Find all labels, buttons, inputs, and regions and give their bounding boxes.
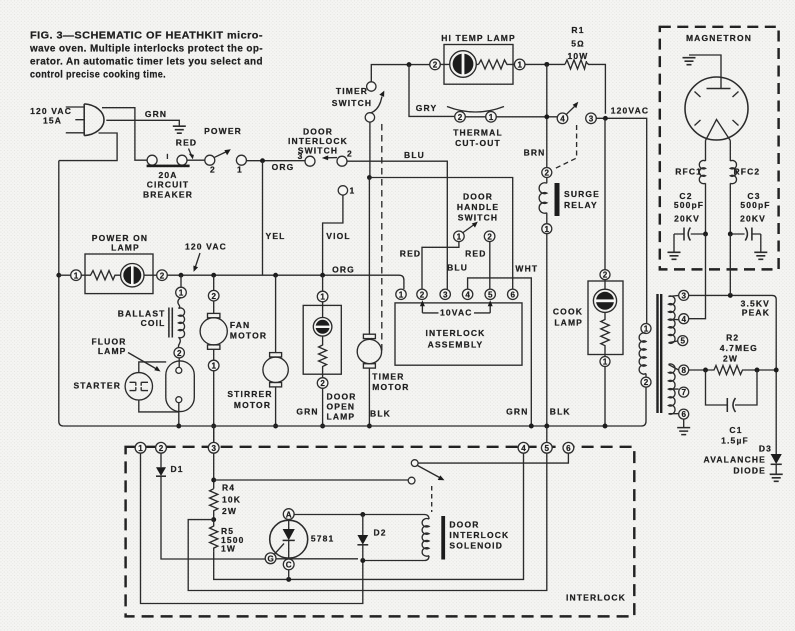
- svg-text:1: 1: [74, 271, 79, 280]
- interlock terminal 4: [518, 442, 529, 453]
- wire to interlock relay contact: [214, 479, 409, 481]
- svg-text:10VAC: 10VAC: [440, 307, 473, 317]
- choke RFC1: [699, 160, 705, 234]
- wire GRN to ground: [106, 120, 179, 126]
- svg-text:FIG. 3—SCHEMATIC OF HEATHKIT m: FIG. 3—SCHEMATIC OF HEATHKIT micro-: [30, 31, 263, 42]
- svg-text:120 VAC: 120 VAC: [30, 106, 72, 116]
- svg-text:2: 2: [644, 378, 649, 387]
- svg-text:2: 2: [458, 113, 463, 122]
- wire anode line to solenoid top: [294, 514, 358, 516]
- svg-text:SURGE: SURGE: [564, 189, 600, 199]
- svg-text:G: G: [267, 555, 273, 564]
- svg-text:LAMP: LAMP: [98, 346, 127, 356]
- svg-text:C: C: [286, 561, 292, 570]
- wire bus to interlock terminal 3: [213, 426, 215, 443]
- svg-text:20A: 20A: [158, 170, 177, 180]
- interlock terminal 6: [563, 442, 574, 453]
- svg-text:C1: C1: [729, 425, 742, 435]
- svg-text:erator. An automatic timer let: erator. An automatic timer lets you sele…: [30, 57, 263, 68]
- svg-text:20KV: 20KV: [740, 214, 766, 224]
- svg-text:2: 2: [347, 149, 353, 159]
- primary terminal 2: [641, 377, 651, 387]
- node C3 junction: [728, 232, 733, 237]
- secondary HV winding: [669, 364, 676, 414]
- svg-text:1: 1: [179, 289, 184, 298]
- node magnetron right leg junction: [728, 293, 733, 298]
- ballast coil L1: [118, 275, 187, 358]
- door open lamp DS3: [303, 275, 356, 426]
- svg-text:POWER: POWER: [204, 126, 242, 136]
- svg-text:LAMP: LAMP: [327, 412, 356, 422]
- node GRN bus junction: [529, 424, 534, 429]
- svg-text:5: 5: [680, 337, 685, 346]
- AC plug P1: [30, 104, 104, 136]
- svg-text:STIRRER: STIRRER: [227, 389, 272, 399]
- wire VIOL down to bus: [323, 195, 343, 275]
- svg-text:VIOL: VIOL: [326, 231, 350, 241]
- svg-text:GRN: GRN: [506, 407, 528, 417]
- svg-text:HI TEMP LAMP: HI TEMP LAMP: [441, 33, 516, 43]
- magnetron box (dashed): [660, 27, 779, 270]
- svg-text:ASSEMBLY: ASSEMBLY: [428, 340, 484, 350]
- svg-text:DOOR: DOOR: [463, 192, 493, 202]
- svg-text:ORG: ORG: [272, 162, 295, 172]
- svg-text:5: 5: [488, 291, 493, 300]
- svg-text:2W: 2W: [222, 506, 237, 516]
- svg-text:LAMP: LAMP: [554, 318, 583, 328]
- wire RED left to interlock terminal 2: [422, 241, 459, 289]
- fan motor B1: [200, 273, 267, 443]
- svg-text:500pF: 500pF: [674, 200, 704, 210]
- interlock relay contacts: [408, 460, 444, 484]
- svg-text:MOTOR: MOTOR: [372, 382, 409, 392]
- wire gate line to solenoid bottom: [276, 556, 429, 561]
- wire cutout to surge switch: [496, 116, 558, 118]
- wire terminal 4 to magnetron left leg: [689, 269, 706, 318]
- svg-text:BLU: BLU: [447, 263, 468, 273]
- node R4/R5 junction: [211, 517, 216, 522]
- svg-text:RED: RED: [176, 138, 197, 148]
- ground (power cord): [173, 126, 186, 133]
- svg-text:20KV: 20KV: [674, 214, 700, 224]
- svg-text:1.5µF: 1.5µF: [721, 436, 749, 446]
- ground D3: [770, 474, 783, 481]
- svg-text:RFC2: RFC2: [734, 167, 761, 177]
- ground magnetron: [683, 58, 696, 65]
- wire top row (timer switch to hi-temp lamp): [371, 65, 429, 83]
- primary terminal 1: [641, 324, 651, 334]
- svg-text:DOOR: DOOR: [303, 127, 333, 137]
- label RED with arrow: [176, 138, 197, 160]
- svg-text:120VAC: 120VAC: [611, 106, 649, 116]
- ground transformer terminal 6: [683, 419, 685, 427]
- node timer junction: [367, 175, 372, 180]
- svg-text:2: 2: [433, 61, 438, 70]
- svg-text:DIODE: DIODE: [733, 466, 766, 476]
- svg-text:7: 7: [681, 388, 686, 397]
- node ballast tap: [179, 273, 184, 278]
- svg-text:BLK: BLK: [550, 407, 571, 417]
- svg-text:SWITCH: SWITCH: [332, 98, 372, 108]
- svg-text:YEL: YEL: [266, 231, 286, 241]
- node timer motor bus junction: [367, 424, 372, 429]
- bottom bus wire: [64, 387, 646, 426]
- svg-text:6: 6: [681, 410, 686, 419]
- svg-text:RFC1: RFC1: [675, 167, 702, 177]
- mechanical link solenoid (dashed): [431, 486, 433, 512]
- node top GRY tap: [407, 62, 412, 67]
- svg-text:CIRCUIT: CIRCUIT: [147, 180, 190, 190]
- svg-text:COOK: COOK: [553, 307, 583, 317]
- svg-text:BLK: BLK: [370, 409, 391, 419]
- power switch S1: [204, 126, 246, 175]
- choke RFC2: [730, 160, 736, 234]
- wire junction bypass to terminal 5: [188, 453, 547, 590]
- svg-text:3: 3: [681, 292, 686, 301]
- svg-text:2: 2: [420, 291, 425, 300]
- door interlock solenoid L2: [422, 516, 509, 560]
- resistor R1 5ohm 10W: [565, 25, 588, 69]
- svg-text:INTERLOCK: INTERLOCK: [566, 593, 626, 603]
- circuit breaker CB1 20A: [143, 154, 193, 200]
- interlock terminal 2: [156, 442, 167, 453]
- svg-text:POWER ON: POWER ON: [92, 233, 148, 243]
- diode D2: [357, 515, 386, 561]
- hi temp lamp DS1: [430, 33, 525, 84]
- svg-text:AVALANCHE: AVALANCHE: [704, 455, 766, 465]
- door interlock switch S2: [288, 127, 353, 167]
- node fluor lamp bus junction: [176, 424, 181, 429]
- magnetron V1: [685, 55, 748, 141]
- capacitor C2 500pF 20KV: [674, 191, 706, 252]
- svg-text:THERMAL: THERMAL: [453, 128, 503, 138]
- wire 120VAC bus: [167, 275, 404, 289]
- svg-text:A: A: [286, 510, 292, 519]
- svg-text:1: 1: [489, 113, 494, 122]
- svg-text:SWITCH: SWITCH: [458, 212, 498, 222]
- svg-text:2: 2: [603, 271, 608, 280]
- terminal 1 (viol): [338, 186, 347, 195]
- node ORG junction: [260, 158, 265, 163]
- svg-text:1: 1: [138, 444, 143, 453]
- svg-text:1: 1: [237, 165, 243, 175]
- svg-text:500pF: 500pF: [740, 200, 770, 210]
- capacitor C3 500pF 20KV: [730, 191, 770, 252]
- svg-text:4: 4: [521, 444, 526, 453]
- svg-text:2: 2: [210, 165, 216, 175]
- ground C3: [754, 252, 767, 259]
- timer switch S3: [332, 82, 385, 122]
- svg-text:MAGNETRON: MAGNETRON: [686, 33, 752, 43]
- node 120VAC: [603, 116, 608, 121]
- svg-text:4.7MEG: 4.7MEG: [720, 343, 758, 353]
- surge relay switch contacts 4-3: [557, 102, 596, 124]
- starter: [73, 362, 178, 412]
- svg-text:wave oven. Multiple interlocks: wave oven. Multiple interlocks protect t…: [29, 44, 263, 55]
- svg-text:5781: 5781: [311, 534, 335, 544]
- thermal cutout: [447, 107, 504, 149]
- svg-text:1: 1: [603, 358, 608, 367]
- svg-text:1: 1: [399, 291, 404, 300]
- interlock terminal 1: [135, 442, 146, 453]
- svg-text:D2: D2: [374, 528, 387, 538]
- svg-text:TIMER: TIMER: [336, 86, 368, 96]
- mechanical link surge relay (dashed): [554, 125, 577, 169]
- svg-text:SOLENOID: SOLENOID: [449, 540, 503, 550]
- svg-text:4: 4: [465, 291, 470, 300]
- svg-text:1: 1: [320, 293, 325, 302]
- svg-text:LAMP: LAMP: [111, 243, 140, 253]
- svg-text:D1: D1: [171, 464, 184, 474]
- wire breaker to power switch: [187, 159, 206, 161]
- secondary filament winding: [669, 296, 676, 343]
- svg-text:RED: RED: [400, 249, 421, 259]
- svg-text:STARTER: STARTER: [73, 381, 121, 391]
- svg-text:BREAKER: BREAKER: [143, 190, 193, 200]
- caption text block: [29, 31, 263, 81]
- diode D1: [156, 453, 184, 476]
- wire bus to interlock terminal 5: [546, 426, 548, 443]
- wire BLU to interlock assembly terminal 3: [347, 161, 448, 289]
- node C2 junction: [703, 232, 708, 237]
- cook lamp DS4: [553, 118, 623, 426]
- node cathode junction: [286, 577, 291, 582]
- svg-text:2: 2: [160, 271, 165, 280]
- wire WHT interlock terminal 4 to bus: [468, 278, 532, 426]
- wire terminal 6 to contact: [418, 453, 568, 463]
- node right rail R2 junction: [774, 368, 779, 373]
- wire timer switch lower to junction: [369, 122, 371, 178]
- node door open lamp bus junction: [320, 424, 325, 429]
- magnetron filament legs: [706, 141, 731, 162]
- svg-text:D3: D3: [759, 444, 772, 454]
- wire RED right to interlock terminal 5: [489, 241, 491, 289]
- mechanical link timer switch (dashed): [381, 124, 383, 355]
- wire terminal 2 to gate line: [161, 476, 265, 559]
- svg-text:PEAK: PEAK: [742, 308, 770, 318]
- resistor R5 1500 1W: [210, 520, 245, 554]
- svg-text:R1: R1: [571, 25, 584, 35]
- svg-text:control precise cooking time.: control precise cooking time.: [30, 70, 166, 81]
- svg-text:2: 2: [159, 444, 164, 453]
- node cook lamp bus junction: [603, 424, 608, 429]
- svg-text:1: 1: [545, 225, 550, 234]
- wire R5 bottom to terminal 4: [214, 453, 524, 579]
- svg-text:3: 3: [211, 444, 216, 453]
- svg-text:MOTOR: MOTOR: [230, 331, 267, 341]
- interlock terminal 3: [208, 442, 219, 453]
- svg-text:1: 1: [517, 61, 522, 70]
- svg-text:GRY: GRY: [416, 103, 438, 113]
- svg-text:1: 1: [350, 186, 356, 196]
- svg-text:R4: R4: [222, 483, 235, 493]
- wire power switch to door interlock switch: [246, 160, 305, 162]
- node R2 right junction: [755, 368, 760, 373]
- svg-text:DOOR: DOOR: [327, 392, 357, 402]
- svg-text:10W: 10W: [568, 51, 589, 61]
- node stirrer bus junction: [273, 424, 278, 429]
- svg-text:120 VAC: 120 VAC: [185, 242, 227, 252]
- node D2 cathode junction: [360, 558, 365, 563]
- stirrer motor B2: [227, 273, 288, 426]
- svg-text:1: 1: [211, 362, 216, 371]
- wire terminal 3 down: [213, 453, 215, 489]
- svg-text:3: 3: [298, 151, 304, 161]
- svg-text:3: 3: [589, 114, 594, 123]
- interlock box (dashed): [126, 447, 635, 617]
- svg-text:2: 2: [211, 292, 216, 301]
- svg-text:6: 6: [510, 291, 515, 300]
- svg-text:6: 6: [566, 444, 571, 453]
- node door open lamp tap: [320, 273, 325, 278]
- wire YEL down to 120VAC bus: [262, 161, 264, 276]
- surge relay K1: [539, 168, 600, 234]
- svg-text:5Ω: 5Ω: [571, 39, 585, 49]
- HV transformer T1: [639, 290, 689, 419]
- power on lamp DS2: [71, 233, 168, 294]
- svg-text:3: 3: [443, 291, 448, 300]
- svg-text:2: 2: [545, 169, 550, 178]
- svg-text:SWITCH: SWITCH: [298, 146, 338, 156]
- svg-text:4: 4: [681, 315, 686, 324]
- svg-text:5: 5: [545, 444, 550, 453]
- svg-text:OPEN: OPEN: [327, 402, 356, 412]
- node R2 left junction: [703, 368, 708, 373]
- door handle switch S4: [454, 192, 500, 242]
- svg-text:COIL: COIL: [141, 318, 166, 328]
- ground C2: [668, 252, 681, 259]
- svg-text:2: 2: [487, 232, 492, 241]
- left bus wire: [59, 161, 64, 426]
- capacitor C1 1.5uF: [706, 370, 758, 446]
- svg-text:RED: RED: [465, 249, 486, 259]
- interlock terminal 5: [541, 442, 552, 453]
- svg-text:HANDLE: HANDLE: [457, 202, 499, 212]
- svg-text:R2: R2: [726, 333, 739, 343]
- resistor R2 4.7MEG 2W: [689, 333, 777, 375]
- svg-text:2: 2: [320, 379, 325, 388]
- svg-text:1W: 1W: [221, 544, 236, 554]
- fluorescent lamp: [91, 337, 194, 426]
- SCR 5781: [265, 509, 334, 580]
- svg-text:BRN: BRN: [524, 148, 546, 158]
- svg-text:INTERLOCK: INTERLOCK: [288, 136, 348, 146]
- svg-text:2W: 2W: [723, 354, 738, 364]
- svg-text:MOTOR: MOTOR: [234, 400, 271, 410]
- wire 3.5KV terminal 3 to right rail: [689, 295, 777, 455]
- wire plug neutral to left bus: [59, 133, 117, 161]
- node R4 top junction: [211, 478, 216, 483]
- svg-text:2: 2: [177, 349, 182, 358]
- wire BLK surge relay to bottom bus: [546, 234, 548, 426]
- svg-text:4: 4: [560, 114, 565, 123]
- svg-text:FAN: FAN: [230, 320, 250, 330]
- svg-text:BLU: BLU: [404, 150, 425, 160]
- wire plug hot to breaker: [102, 108, 147, 161]
- label 120 VAC with arrow: [185, 242, 227, 272]
- diode D3 avalanche: [704, 444, 782, 476]
- svg-text:INTERLOCK: INTERLOCK: [449, 530, 509, 540]
- wire lamp to R1: [525, 63, 566, 65]
- wire terminal 1 to D2 cathode rail: [141, 453, 363, 603]
- node D2 anode junction: [360, 512, 365, 517]
- wire R1 to 120VAC corner: [587, 63, 606, 114]
- node BLK bus junction: [544, 424, 549, 429]
- node power-on lamp tap: [56, 273, 61, 278]
- wire BRN drop from junction: [546, 64, 548, 167]
- svg-text:GRN: GRN: [145, 109, 167, 119]
- svg-text:CUT-OUT: CUT-OUT: [455, 138, 501, 148]
- svg-text:1: 1: [457, 232, 462, 241]
- node fan motor bus junction: [211, 424, 216, 429]
- wire junction to interlock assembly terminal 6: [369, 178, 512, 290]
- wire switch to 120VAC node: [596, 118, 647, 323]
- core: [658, 294, 662, 413]
- wire GRY: [409, 65, 455, 117]
- wire magnetron legs below box: [706, 234, 731, 295]
- svg-text:RELAY: RELAY: [564, 200, 598, 210]
- svg-text:GRN: GRN: [296, 407, 318, 417]
- svg-text:ORG: ORG: [332, 265, 355, 275]
- resistor R4 10K 2W: [210, 483, 241, 520]
- interlock assembly: [395, 289, 522, 365]
- wire bus to lamp: [59, 274, 71, 276]
- node cutout junction: [544, 114, 549, 119]
- svg-text:INTERLOCK: INTERLOCK: [426, 328, 486, 338]
- timer motor B3: [357, 178, 409, 427]
- svg-text:8: 8: [681, 366, 686, 375]
- node hi-temp/cutout junction: [544, 62, 549, 67]
- svg-text:10K: 10K: [222, 495, 241, 505]
- svg-text:15A: 15A: [43, 116, 62, 126]
- svg-text:WHT: WHT: [515, 264, 538, 274]
- primary winding: [639, 333, 646, 377]
- svg-text:DOOR: DOOR: [449, 519, 479, 529]
- svg-text:TIMER: TIMER: [372, 372, 404, 382]
